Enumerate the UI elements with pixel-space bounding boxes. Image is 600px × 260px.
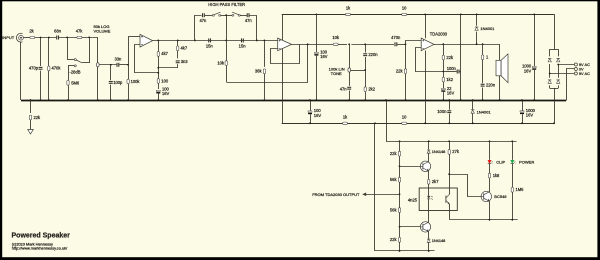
- capacitor 470n: [394, 42, 395, 46]
- svg-text:5M6: 5M6: [71, 80, 80, 85]
- capacitor 100uF 16V negative rail: [310, 100, 312, 111]
- op-amp U2: [278, 38, 292, 51]
- resistor 22k bias: [405, 44, 407, 69]
- diode 1N4148 lower: [428, 232, 430, 239]
- wire jack tip to R 2k: [23, 37, 30, 39]
- svg-text:1N4148: 1N4148: [432, 149, 446, 154]
- capacitor 220n tone: [365, 44, 367, 52]
- svg-text:16V: 16V: [447, 91, 455, 96]
- diode bridge D1: [549, 49, 551, 56]
- wire bridge positive feed: [554, 15, 555, 50]
- capacitor 33n: [116, 63, 117, 67]
- svg-text:3n3: 3n3: [181, 59, 189, 64]
- svg-text:1k: 1k: [346, 5, 351, 10]
- svg-text:9V AC: 9V AC: [579, 71, 590, 76]
- node junction Q1 base: [399, 165, 401, 167]
- node junction 100p: [110, 64, 112, 66]
- wire bridge bottom bar: [550, 88, 559, 90]
- wire HPF bootstrap to U2 output: [227, 45, 308, 83]
- resistor 10k HPF: [226, 15, 228, 40]
- input jack J1: [17, 33, 23, 42]
- capacitor 220n zobel: [481, 84, 485, 85]
- node junction feedback: [442, 71, 444, 73]
- switch SW3: [232, 14, 234, 16]
- wire LED section 0V riser: [387, 101, 517, 142]
- terminal 9V AC lower: [574, 72, 577, 75]
- wire U1 output: [153, 40, 195, 42]
- wire 47n B to right corner: [250, 16, 257, 41]
- node HPF top center junction: [225, 14, 227, 16]
- svg-text:220n: 220n: [486, 82, 496, 87]
- ground symbol: [28, 130, 34, 135]
- svg-text:TONE: TONE: [331, 71, 342, 76]
- node junction signal feed: [399, 193, 401, 195]
- wire bridge negative feed: [554, 88, 556, 123]
- node ladder top junction: [399, 140, 401, 142]
- svg-text:100: 100: [161, 78, 169, 83]
- svg-text:16V: 16V: [320, 54, 328, 59]
- wire 470n to TDA2030: [397, 44, 405, 46]
- wire LED section -V riser: [375, 124, 435, 251]
- svg-text:100n: 100n: [437, 109, 447, 114]
- diode 1N4001 to +rail: [476, 14, 478, 25]
- capacitor 100uF 16V: [156, 90, 160, 91]
- resistor 47k: [77, 36, 82, 38]
- LED POWER green: [512, 141, 514, 160]
- node bus junction 22k bias: [405, 99, 407, 101]
- svg-text:http://www.markhennessy.co.uk/: http://www.markhennessy.co.uk/: [12, 246, 68, 251]
- transistor Q1: [420, 161, 430, 171]
- svg-text:33n: 33n: [114, 57, 122, 62]
- svg-text:10: 10: [402, 5, 407, 10]
- resistor 1 zobel: [482, 44, 484, 55]
- resistor 4k7 branch: [177, 40, 179, 45]
- wire TDA V+ stub: [425, 14, 427, 38]
- svg-text:2k2: 2k2: [368, 87, 375, 92]
- wire signal feed arrow: [362, 193, 366, 197]
- wire TDA V- stub: [425, 51, 427, 124]
- resistor 56k ladder A: [399, 166, 401, 177]
- wire U2 follower loop: [271, 45, 300, 64]
- wire pot top to 220n: [351, 44, 394, 46]
- resistor 1k lower rail: [343, 122, 348, 124]
- wire 100n to rail link: [443, 71, 456, 73]
- wire TDA -in loop: [416, 48, 444, 72]
- svg-text:1N4001: 1N4001: [477, 109, 492, 114]
- capacitor 1000uF 16V positive: [534, 14, 536, 66]
- wire U2 power stub: [282, 14, 284, 123]
- svg-text:56k: 56k: [390, 207, 398, 212]
- svg-text:10k: 10k: [332, 35, 340, 40]
- wire AC input 1: [558, 64, 574, 66]
- node HPF right junction: [256, 40, 258, 42]
- capacitor 100p: [110, 65, 112, 80]
- svg-text:27k: 27k: [452, 149, 460, 154]
- node junction 220n top: [364, 43, 366, 45]
- svg-text:1k2: 1k2: [446, 77, 453, 82]
- op-amp U3 TDA2030: [421, 38, 434, 51]
- switch SW1 -28dB: [74, 59, 76, 61]
- svg-text:BC549: BC549: [494, 194, 507, 199]
- svg-text:100k: 100k: [131, 79, 141, 84]
- transistor Q2: [420, 222, 430, 232]
- wire HPF top branch: [195, 16, 202, 41]
- resistor 22k ladder top: [399, 141, 401, 151]
- LED CLIP red: [489, 141, 491, 160]
- wire 0V center tap: [567, 69, 575, 101]
- svg-text:47n: 47n: [245, 18, 253, 23]
- resistor 10 lower rail: [402, 122, 407, 124]
- resistor 56k ladder B: [399, 194, 401, 207]
- node junction attenuator left: [66, 37, 68, 39]
- svg-text:Powered Speaker: Powered Speaker: [12, 233, 71, 240]
- node junction 36k: [264, 40, 266, 42]
- svg-text:68n: 68n: [54, 28, 62, 33]
- node junction 4k7-3n3 branch: [177, 40, 179, 42]
- node top rail junction 100uF: [316, 14, 318, 16]
- wire switch to node D: [82, 62, 89, 64]
- svg-text:4k7: 4k7: [181, 46, 188, 51]
- wire TDA output: [434, 44, 500, 46]
- resistor 22k ground lift: [30, 100, 32, 113]
- node junction -in loop: [157, 72, 159, 74]
- svg-text:CLIP: CLIP: [496, 160, 505, 165]
- node bus junction 100uF: [316, 99, 318, 101]
- svg-text:16V: 16V: [162, 91, 170, 96]
- svg-text:INPUT: INPUT: [2, 35, 15, 40]
- svg-text:47n: 47n: [199, 18, 207, 23]
- wire Q2 collector: [428, 211, 430, 223]
- resistor 1k top rail: [346, 13, 351, 15]
- wire Q1 base: [400, 166, 421, 168]
- svg-text:1N4001: 1N4001: [480, 26, 495, 31]
- node junction 27k top: [448, 140, 450, 142]
- optocoupler phototransistor: [445, 196, 447, 203]
- border frame: [0, 0, 600, 1]
- capacitor 3n3: [176, 60, 180, 61]
- svg-text:22k: 22k: [390, 151, 398, 156]
- wire SW3 to 47n B: [240, 15, 247, 17]
- wire 47k to volume pot: [82, 37, 98, 39]
- svg-text:1k: 1k: [343, 115, 348, 120]
- potentiometer VR2 100k LIN tone: [349, 44, 351, 86]
- svg-text:1N4148: 1N4148: [432, 238, 446, 243]
- capacitor 47n tone: [347, 87, 351, 88]
- positive supply rail: [282, 14, 554, 16]
- wire 68n to 47k: [59, 37, 77, 39]
- resistor 100k: [128, 65, 130, 79]
- svg-text:15n: 15n: [206, 44, 214, 49]
- node junction Q2 base: [399, 226, 401, 228]
- ground bus (0V rail): [21, 100, 566, 102]
- capacitor 15n A: [208, 38, 209, 42]
- svg-text:470k: 470k: [52, 66, 62, 71]
- wire SW2 to center: [221, 15, 233, 17]
- terminal 0V: [574, 68, 577, 71]
- svg-text:POWER: POWER: [519, 160, 534, 165]
- wire U1 -in loop: [135, 45, 159, 73]
- svg-text:100p: 100p: [113, 80, 123, 85]
- capacitor 100uF 16V rail: [316, 14, 318, 52]
- svg-text:HIGH PASS FILTER: HIGH PASS FILTER: [208, 2, 245, 7]
- wire U2 output: [292, 44, 334, 46]
- node junction ladder bottom: [399, 250, 401, 252]
- svg-text:470p: 470p: [29, 66, 39, 71]
- capacitor 47n B: [247, 13, 248, 17]
- svg-text:100n: 100n: [447, 66, 457, 71]
- svg-text:VOLUME: VOLUME: [94, 29, 111, 34]
- capacitor 47n A: [202, 13, 203, 17]
- wire Q2 base: [400, 226, 421, 228]
- svg-text:1: 1: [486, 55, 489, 60]
- resistor 1k8: [489, 164, 491, 173]
- node junction 3n3 wire: [157, 67, 159, 69]
- node HPF left junction: [194, 40, 196, 42]
- wire jack sleeve to ground bus: [20, 42, 22, 100]
- svg-text:22k: 22k: [446, 55, 454, 60]
- op-amp U1: [140, 34, 153, 47]
- optocoupler 4N25 box: [419, 188, 457, 211]
- node U2 output junction: [307, 43, 309, 45]
- wire speaker to bus: [499, 76, 501, 100]
- capacitor 100n rail: [449, 100, 451, 110]
- wire HPF to U2: [257, 40, 278, 42]
- speaker LS1: [496, 60, 501, 76]
- node junction 100k: [127, 64, 129, 66]
- svg-text:16V: 16V: [524, 68, 532, 73]
- svg-text:220n: 220n: [368, 52, 378, 57]
- svg-text:56k: 56k: [390, 177, 398, 182]
- node junction tone wiper: [364, 69, 366, 71]
- svg-text:2k: 2k: [29, 28, 34, 33]
- svg-text:36k: 36k: [255, 69, 263, 74]
- bus junction dots: [40, 99, 42, 101]
- wire rail-bus link: [460, 14, 462, 100]
- svg-text:47n: 47n: [340, 86, 348, 91]
- wire switch lower contact to 5M6: [68, 65, 74, 67]
- svg-text:1M5: 1M5: [516, 187, 525, 192]
- capacitor 1000uF 16V negative: [522, 100, 524, 111]
- node junction opto collector: [448, 173, 450, 175]
- svg-text:4n25: 4n25: [408, 197, 418, 202]
- svg-text:TDA2030: TDA2030: [430, 32, 448, 37]
- diode bridge D4: [557, 79, 560, 81]
- resistor 10 top rail: [402, 13, 407, 15]
- wire HPF main line: [195, 40, 257, 42]
- node tone pot top junction: [348, 43, 350, 45]
- node bus junction zobel: [482, 99, 484, 101]
- node junction 470k: [48, 37, 50, 39]
- node junction zobel: [482, 43, 484, 45]
- transistor Q3 BC549: [481, 191, 491, 201]
- resistor 27k: [449, 141, 451, 149]
- resistor 2k7: [428, 171, 430, 179]
- svg-text:470n: 470n: [391, 35, 401, 40]
- capacitor 22uF 16V: [441, 89, 445, 90]
- terminal 9V AC upper: [574, 63, 577, 66]
- wire tone wiper: [351, 70, 366, 72]
- svg-text:16V: 16V: [526, 113, 534, 118]
- resistor 5M6: [67, 80, 69, 85]
- resistor 10k tone: [333, 43, 338, 45]
- wire to switch common: [67, 37, 69, 59]
- resistor 470k: [48, 38, 50, 67]
- wire jog to TDA +in: [406, 41, 422, 45]
- diode bridge D3: [548, 79, 551, 81]
- svg-text:10k: 10k: [217, 60, 225, 65]
- resistor 36k: [264, 40, 266, 66]
- wire 2k to 68n: [35, 37, 56, 39]
- resistor 22k ladder bottom: [399, 227, 401, 238]
- svg-text:22k: 22k: [34, 115, 42, 120]
- resistor 1M5: [512, 164, 514, 188]
- capacitor 15n B: [241, 38, 242, 42]
- potentiometer VR1 50k LOG: [97, 37, 99, 100]
- resistor 22k feedback: [443, 44, 445, 55]
- node TDA output junction: [442, 43, 444, 45]
- resistor 100: [157, 79, 159, 84]
- node bus to 22k: [30, 99, 32, 101]
- svg-text:16V: 16V: [314, 113, 322, 118]
- svg-text:22k: 22k: [390, 237, 398, 242]
- diode 1N4001 to -rail: [471, 109, 474, 111]
- svg-text:15n: 15n: [239, 44, 247, 49]
- wire to speaker: [499, 44, 501, 60]
- resistor 2k: [30, 36, 35, 38]
- wire Q3 emitter to rail: [489, 201, 491, 220]
- diode 1N4148 upper: [428, 141, 430, 149]
- wire LED bottom rail: [449, 219, 517, 221]
- wire 27k to BC549 base: [450, 175, 482, 197]
- node junction CLIP chain: [489, 140, 491, 142]
- svg-text:4k7: 4k7: [161, 51, 168, 56]
- capacitor 100n fb: [457, 70, 458, 74]
- wire opto collector: [449, 174, 451, 194]
- wire wiper to 33n: [99, 64, 116, 66]
- negative supply rail: [282, 123, 555, 125]
- svg-text:-28dB: -28dB: [70, 69, 81, 74]
- optocoupler LED: [428, 188, 430, 196]
- svg-text:1k8: 1k8: [493, 173, 500, 178]
- switch SW2: [212, 14, 214, 16]
- diode bridge D2: [558, 49, 560, 56]
- capacitor 470p: [40, 38, 42, 67]
- node junction POWER chain: [511, 140, 513, 142]
- wire bridge top bar: [550, 49, 559, 51]
- node U1 feedback junction: [157, 40, 159, 42]
- svg-text:22k: 22k: [396, 69, 404, 74]
- wire 47n to SW2: [205, 15, 213, 17]
- node junction attenuator right: [88, 37, 90, 39]
- resistor 1k2: [443, 72, 445, 78]
- wire opto emitter: [449, 204, 451, 220]
- wire to opamp U1 +in: [128, 37, 130, 65]
- svg-text:47k: 47k: [76, 28, 84, 33]
- wire AC input 2: [550, 73, 575, 75]
- node HPF mid junction: [225, 40, 227, 42]
- wire 33n to opamp U1 input: [119, 64, 128, 66]
- node junction 22k bias: [405, 43, 407, 45]
- capacitor 68n: [56, 36, 57, 40]
- svg-text:FROM TDA2030 OUTPUT: FROM TDA2030 OUTPUT: [312, 192, 360, 197]
- node junction 470p: [40, 37, 42, 39]
- node bus junction 22uF: [442, 99, 444, 101]
- resistor 4k7 feedback: [158, 40, 160, 51]
- svg-text:10: 10: [402, 115, 407, 120]
- svg-text:2k7: 2k7: [432, 179, 439, 184]
- resistor 2k2: [365, 70, 367, 87]
- wire 10k to pot: [338, 44, 347, 46]
